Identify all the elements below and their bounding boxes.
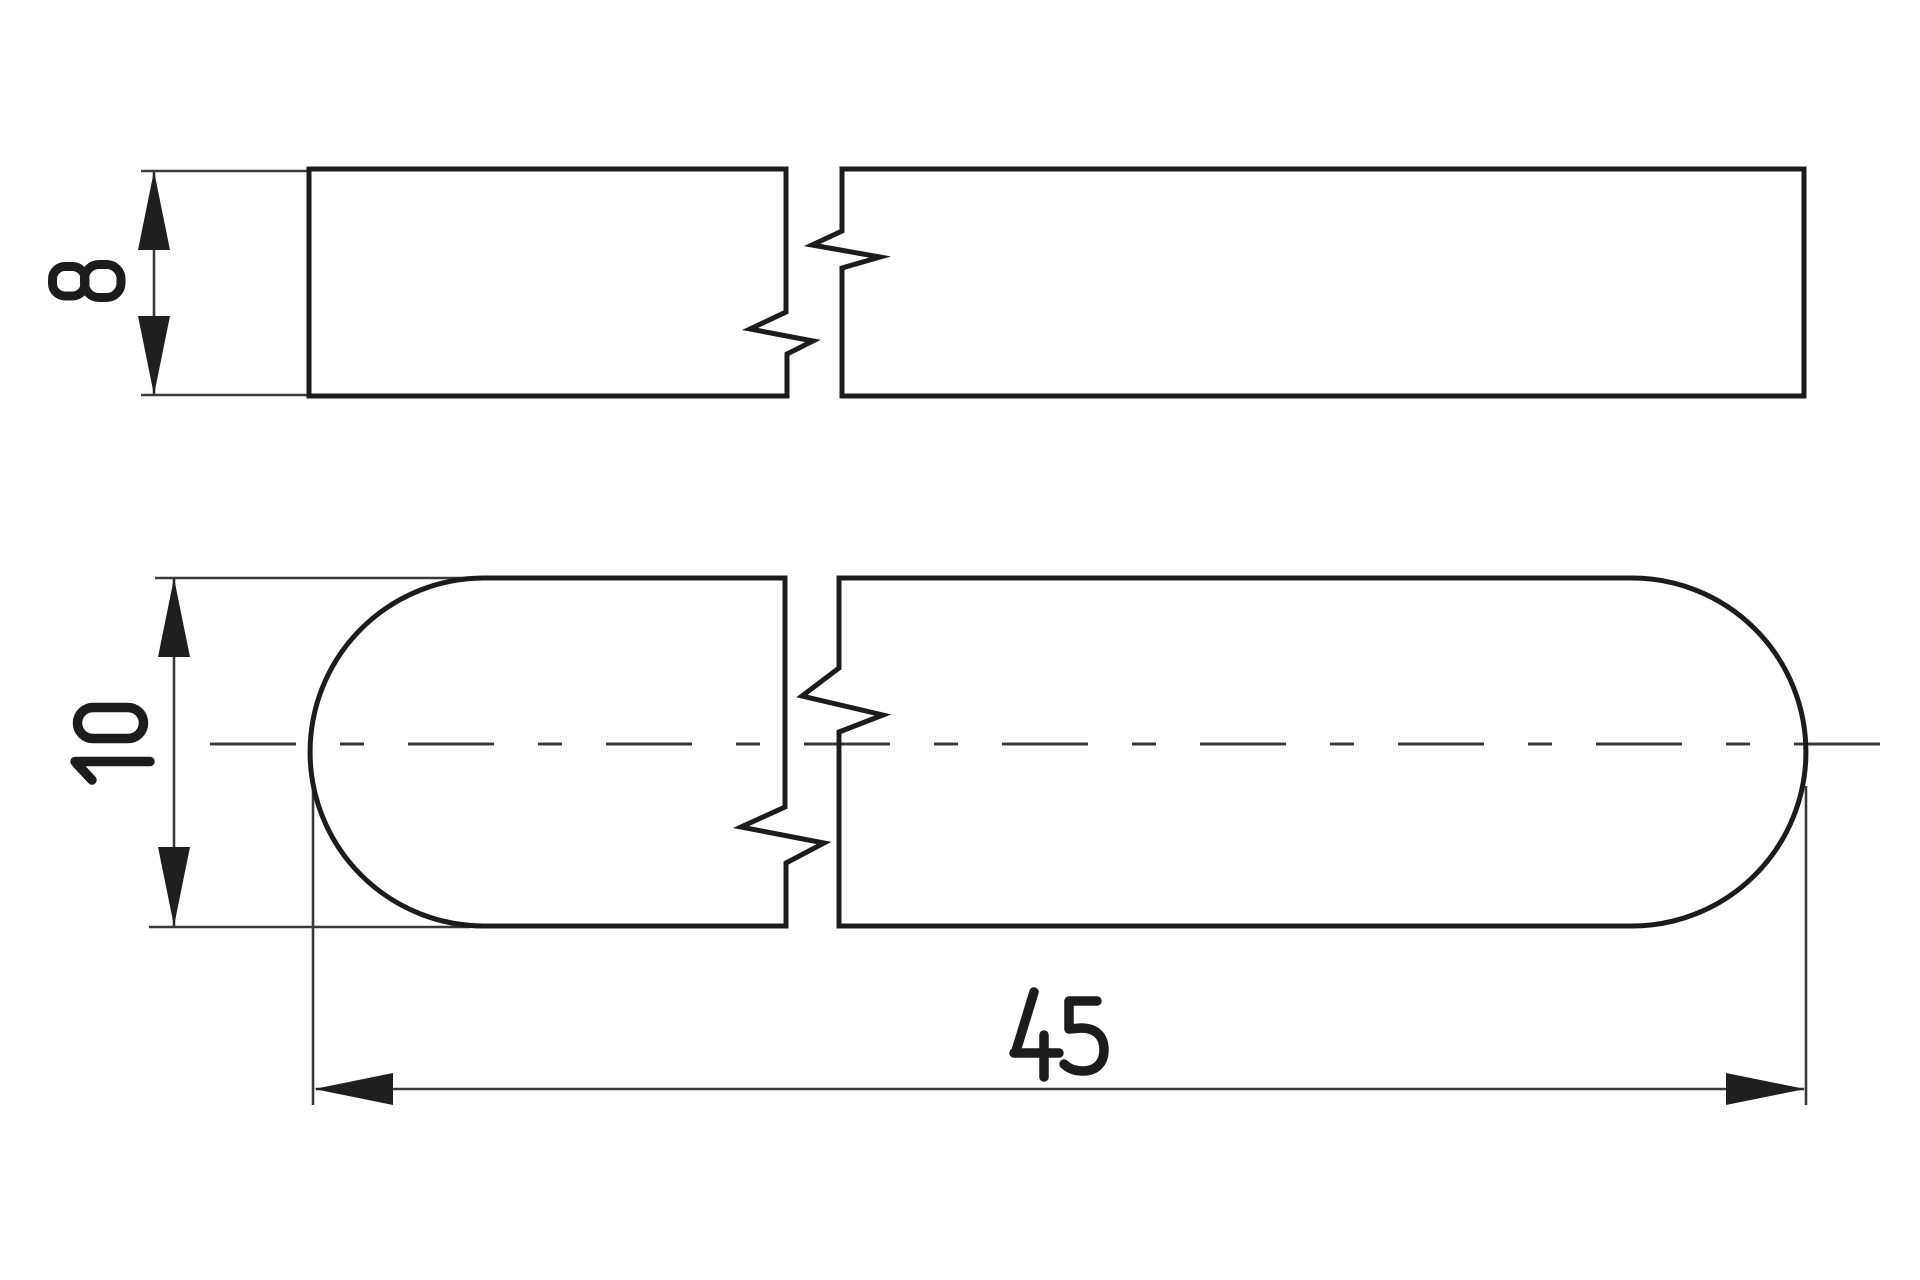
dimension text 8 (rotated) xyxy=(53,265,122,298)
key plan view, right segment (round end, with break line) xyxy=(802,578,1806,926)
key side view, left segment (with break line) xyxy=(309,169,813,396)
key side view, right segment (with break line) xyxy=(812,169,1804,396)
extension line left (length 45 dim) xyxy=(312,786,315,1105)
dimension line 10 xyxy=(173,578,176,926)
dimension line 45 xyxy=(316,1088,1804,1091)
dimension line 8 xyxy=(153,171,156,395)
extension line right (length 45 dim) xyxy=(1805,786,1808,1105)
arrowhead 8 bottom xyxy=(138,316,170,395)
centerline (axis of key, dash-dot) xyxy=(210,743,1896,746)
arrowhead 45 right xyxy=(1726,1073,1805,1105)
dimension text 45 xyxy=(1014,992,1104,1077)
extension line bottom (width 10 dim) xyxy=(149,926,470,929)
key plan view, left segment (round end, with break line) xyxy=(310,578,824,926)
arrowhead 8 top xyxy=(138,171,170,250)
arrowhead 45 left xyxy=(314,1073,393,1105)
arrowhead 10 top xyxy=(158,578,190,657)
extension line bottom (height 8 dim) xyxy=(141,394,309,397)
dimension text 10 (rotated) xyxy=(75,708,150,781)
extension line top (width 10 dim) xyxy=(155,577,500,580)
extension line top (height 8 dim) xyxy=(141,170,309,173)
arrowhead 10 bottom xyxy=(158,847,190,926)
